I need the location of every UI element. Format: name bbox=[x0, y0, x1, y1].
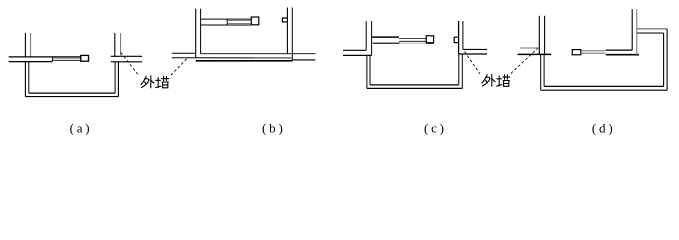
left wall vertical 1 (c) bbox=[365, 21, 367, 50]
bottom wall thick outer line (b) bbox=[196, 60, 293, 62]
svg-text:(d): (d) bbox=[592, 120, 616, 135]
window end block (a) bbox=[81, 55, 89, 61]
exterior wall bottom line (a) bbox=[9, 61, 53, 63]
radiator end block (d) bbox=[572, 50, 581, 55]
partition wall bottom line (b) bbox=[201, 24, 252, 26]
leader line from label to (d) wall bbox=[511, 47, 540, 74]
pipe bottom outer line (a) bbox=[25, 96, 118, 98]
window glazing line 2 (b) bbox=[227, 22, 251, 24]
right stub upper line (c) bbox=[463, 48, 487, 50]
pipe branch lower line (d) bbox=[637, 32, 664, 34]
left wall vertical 1 (d) bbox=[538, 16, 540, 55]
glyph wai bbox=[141, 76, 146, 84]
radiator band line 2 (d) bbox=[581, 52, 606, 54]
right wall vertical 2 (c) bbox=[462, 21, 464, 49]
exterior wall top line (c) bbox=[371, 36, 399, 38]
left wall thick bottom line (d) bbox=[518, 53, 552, 55]
leader line from (c) wall to label bbox=[465, 52, 481, 75]
pipe branch upper line (d) bbox=[637, 28, 667, 30]
window glazing bottom line (a) bbox=[52, 59, 80, 61]
pipe right leg outer (a) bbox=[117, 62, 119, 97]
left stub upper line (b) bbox=[172, 52, 196, 54]
window end block (c) bbox=[426, 36, 433, 43]
pipe left leg outer (c) bbox=[366, 55, 368, 88]
text waiqiang 2 (hand drawn glyphs) bbox=[482, 74, 510, 86]
wall left vertical line 2 (a) bbox=[30, 33, 32, 57]
left wall vertical 2 (d) bbox=[544, 16, 546, 55]
pipe bottom inner line (a) bbox=[29, 92, 115, 94]
left wall vertical inner (b) bbox=[200, 9, 202, 54]
left stub upper line (d) bbox=[520, 47, 539, 49]
pipe left leg outer (d) bbox=[540, 54, 542, 90]
bottom wall middle line (b) bbox=[172, 57, 292, 59]
bottom wall inner line (b) bbox=[201, 53, 316, 55]
leader line from (a) wall to label bbox=[121, 53, 140, 77]
radiator top line (d) bbox=[606, 49, 632, 51]
right wall vertical 2 (d) bbox=[636, 9, 638, 55]
right wall vertical line 1 (a) bbox=[114, 33, 116, 56]
pipe right leg outer (d) bbox=[666, 29, 668, 90]
pipe right leg inner (d) bbox=[663, 33, 665, 86]
pipe bottom inner line (c) bbox=[370, 84, 459, 86]
window glazing line 1 (c) bbox=[399, 38, 426, 40]
window divider (a) bbox=[51, 57, 53, 62]
pipe left leg inner (c) bbox=[369, 55, 371, 85]
svg-text:(a): (a) bbox=[70, 120, 93, 135]
pier notch (c) bbox=[454, 37, 458, 42]
right wall vertical 1 (b) bbox=[286, 8, 288, 55]
text waiqiang 1 (hand drawn glyphs) bbox=[141, 76, 169, 88]
pipe bottom inner line (d) bbox=[544, 85, 664, 87]
pipe right leg inner (c) bbox=[458, 54, 460, 85]
right wall top line (a) bbox=[111, 55, 142, 57]
right stub lower line (c) bbox=[459, 53, 487, 55]
partition wall top line (b) bbox=[201, 18, 252, 20]
pipe right leg inner (a) bbox=[114, 62, 116, 93]
glyph qiang bbox=[157, 78, 159, 88]
radiator band line 1 (d) bbox=[581, 50, 606, 52]
right wall bottom line (a) bbox=[111, 61, 142, 63]
bottom wall right extension (b) bbox=[291, 59, 315, 61]
window divider (b) bbox=[226, 19, 228, 25]
left stub lower line (c) bbox=[343, 54, 372, 56]
exterior wall top line (a) bbox=[9, 56, 81, 58]
pipe right leg outer (c) bbox=[461, 54, 463, 88]
pipe left leg outer (a) bbox=[24, 62, 26, 97]
pipe bottom outer line (c) bbox=[367, 87, 462, 89]
right wall vertical 2 (b) bbox=[291, 8, 293, 61]
svg-text:(b): (b) bbox=[262, 120, 286, 135]
right wall vertical line 2 (a) bbox=[120, 33, 122, 56]
pipe left leg inner (a) bbox=[28, 62, 30, 94]
window glazing line 1 (b) bbox=[227, 20, 251, 22]
right wall vertical 1 (c) bbox=[458, 21, 460, 54]
left stub upper line (c) bbox=[343, 49, 366, 51]
radiator bottom thick line (d) bbox=[606, 54, 639, 56]
pipe bottom outer line (d) bbox=[541, 89, 667, 91]
pier notch (b) bbox=[282, 18, 287, 22]
wall left vertical line 1 (a) bbox=[24, 33, 26, 57]
right wall vertical 1 (d) bbox=[631, 9, 633, 50]
exterior wall bottom line (c) bbox=[373, 42, 400, 44]
svg-text:(c): (c) bbox=[424, 120, 447, 135]
window glazing line 2 (c) bbox=[399, 40, 426, 42]
left wall vertical outer (b) bbox=[195, 9, 197, 58]
pipe left leg inner (d) bbox=[543, 54, 545, 86]
window end block (b) bbox=[251, 17, 258, 25]
window glazing top line (a) bbox=[52, 57, 80, 59]
leader line from label to (b) wall bbox=[171, 58, 188, 76]
left wall vertical 2 (c) bbox=[371, 21, 373, 55]
